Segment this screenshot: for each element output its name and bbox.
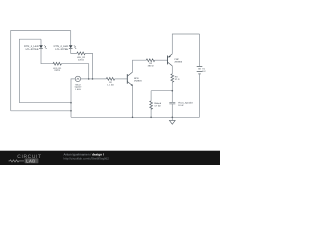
svg-text:2N3904: 2N3904 bbox=[134, 80, 142, 83]
wire Q2 collector down bbox=[171, 66, 173, 74]
voltage source V2 square bbox=[75, 76, 80, 81]
svg-text:390 Ω: 390 Ω bbox=[148, 65, 154, 68]
svg-text:PNP: PNP bbox=[174, 58, 179, 61]
wire Q1 collector up bbox=[133, 60, 147, 72]
CircuitLab logo bbox=[9, 154, 42, 163]
footer bar bbox=[0, 151, 220, 165]
LED D2 bbox=[69, 45, 76, 49]
wire LED2 cathode to R2 bbox=[71, 49, 77, 54]
svg-text:220 Ω: 220 Ω bbox=[54, 69, 60, 72]
wire R4 to Q2 base bbox=[155, 59, 168, 61]
wire R2 to node A bbox=[85, 53, 92, 79]
label LED_R1 220 bbox=[53, 67, 62, 72]
wire outer loop left/top bbox=[11, 31, 71, 111]
label V2 MCU square 1 kHz bbox=[75, 83, 82, 91]
wire cap to rail bbox=[171, 104, 173, 117]
node junction dots bbox=[70, 78, 173, 118]
svg-text:LTL-307EE: LTL-307EE bbox=[26, 48, 39, 51]
svg-text:2N3906: 2N3906 bbox=[174, 60, 182, 63]
label LED_R2 220 bbox=[77, 56, 86, 61]
transistor Q2 PNP 2N3906 bbox=[168, 54, 173, 66]
resistor R3 47 ohm bbox=[171, 74, 174, 82]
label Piezo_Speaker 10 nF bbox=[178, 102, 193, 108]
svg-text:10 nF: 10 nF bbox=[178, 104, 184, 107]
LED D1 bbox=[39, 45, 46, 49]
svg-text:47 Ω: 47 Ω bbox=[175, 78, 180, 81]
wire source right lead bbox=[81, 78, 107, 80]
resistor Rbleed bbox=[150, 101, 153, 109]
label D1 RTN_1_LED LTL-307EE bbox=[24, 45, 39, 51]
wire LED1 anode stub bbox=[40, 39, 42, 45]
wire outer loop bottom bbox=[11, 110, 71, 112]
wire LED1 cathode to R1 bbox=[41, 49, 53, 64]
svg-text:9 V: 9 V bbox=[202, 70, 206, 73]
resistor LED_R1 bbox=[53, 62, 61, 65]
wire source left lead down to rail bbox=[71, 79, 75, 117]
transistor Q1 NPN 2N3904 bbox=[127, 72, 133, 86]
wire bottom rail bbox=[71, 116, 200, 118]
svg-text:4.7 kΩ: 4.7 kΩ bbox=[154, 105, 161, 108]
wire R1 to node A bbox=[61, 64, 88, 79]
svg-text:1 kHz: 1 kHz bbox=[75, 88, 81, 91]
svg-text:http://circuitlab.com/c/5bst8f: http://circuitlab.com/c/5bst8f5vg862 bbox=[64, 157, 110, 161]
label Q2 PNP 2N3906 bbox=[174, 58, 182, 64]
label D2 RTN_2_LED LTL-307EE bbox=[54, 45, 69, 51]
wire Rbleed to rail bbox=[150, 107, 152, 117]
label Q1 NPN 2N3904 bbox=[134, 77, 142, 83]
capacitor Piezo_Speaker bbox=[169, 102, 175, 104]
svg-text:LAB: LAB bbox=[26, 158, 35, 163]
resistor LED_R2 bbox=[77, 52, 85, 55]
wire inner loop bottom bbox=[19, 102, 71, 104]
label R2 1.1k bbox=[107, 81, 114, 87]
svg-text:1.1 kΩ: 1.1 kΩ bbox=[107, 83, 114, 86]
wire R3 to box top bbox=[171, 82, 173, 91]
resistor R2 base bbox=[106, 78, 114, 81]
wire Q2 emitter up to top rail bbox=[172, 34, 199, 54]
ground bbox=[169, 117, 175, 124]
battery V1 bbox=[197, 34, 203, 117]
wire box right upper bbox=[171, 91, 173, 103]
wire speaker box top bbox=[151, 90, 172, 92]
svg-text:LTL-307EE: LTL-307EE bbox=[55, 48, 68, 51]
wire Q1 emitter down bbox=[132, 86, 134, 118]
label R3 47 bbox=[175, 75, 180, 81]
wire inner loop left/top bbox=[19, 39, 41, 102]
label V1 9V bbox=[202, 67, 206, 73]
svg-text:220 Ω: 220 Ω bbox=[78, 59, 84, 62]
wire box left upper bbox=[150, 91, 152, 101]
label R4 390 bbox=[148, 62, 154, 67]
resistor R4 collector bbox=[146, 59, 154, 62]
credits text bbox=[64, 153, 110, 161]
wire R2 to Q1 base bbox=[115, 78, 128, 80]
label Rbleed 4.7k bbox=[154, 102, 162, 107]
wire LED2 anode stub bbox=[70, 31, 72, 46]
svg-text:NPN: NPN bbox=[134, 77, 139, 80]
